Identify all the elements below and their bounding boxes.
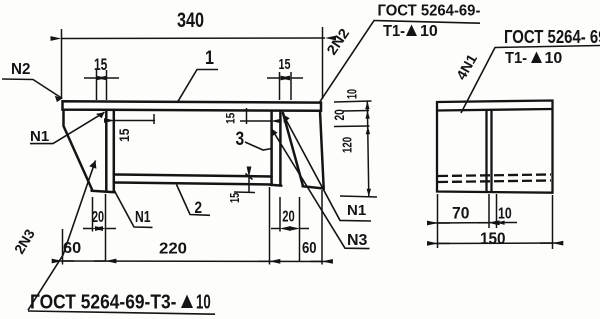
svg-text:3: 3 [236,128,245,150]
svg-text:ГОСТ 5264- 69-: ГОСТ 5264- 69- [504,27,600,48]
svg-text:20: 20 [331,109,347,121]
svg-text:10: 10 [420,23,438,40]
svg-text:10: 10 [545,50,563,67]
svg-text:2: 2 [195,199,203,218]
svg-text:N2: N2 [11,61,31,78]
svg-text:120: 120 [341,137,354,153]
svg-text:2N2: 2N2 [325,26,353,58]
svg-text:N1: N1 [30,128,49,145]
svg-text:4N1: 4N1 [454,52,481,83]
svg-text:10: 10 [346,89,360,99]
svg-text:N1: N1 [135,208,151,226]
svg-text:20: 20 [282,206,295,225]
svg-text:10: 10 [196,291,211,313]
svg-text:340: 340 [177,8,204,32]
svg-text:20: 20 [92,208,104,226]
svg-text:ГОСТ 5264-69-Т3-: ГОСТ 5264-69-Т3- [30,290,176,312]
svg-text:15: 15 [279,55,291,72]
svg-text:N1: N1 [347,202,366,219]
svg-text:220: 220 [159,240,187,258]
svg-text:70: 70 [452,204,469,223]
svg-text:150: 150 [480,229,506,248]
svg-text:2N3: 2N3 [11,226,38,256]
svg-text:15: 15 [116,128,132,142]
svg-text:15: 15 [225,113,238,124]
svg-text:15: 15 [94,56,107,75]
svg-text:N3: N3 [347,232,368,249]
svg-text:60: 60 [63,239,81,257]
svg-text:Т1-: Т1- [505,49,527,67]
svg-text:1: 1 [205,47,214,69]
svg-text:ГОСТ 5264-69-: ГОСТ 5264-69- [378,2,481,20]
svg-text:10: 10 [498,205,512,223]
svg-text:15: 15 [229,193,243,203]
svg-text:60: 60 [302,240,317,257]
svg-text:Т1-: Т1- [383,22,405,40]
